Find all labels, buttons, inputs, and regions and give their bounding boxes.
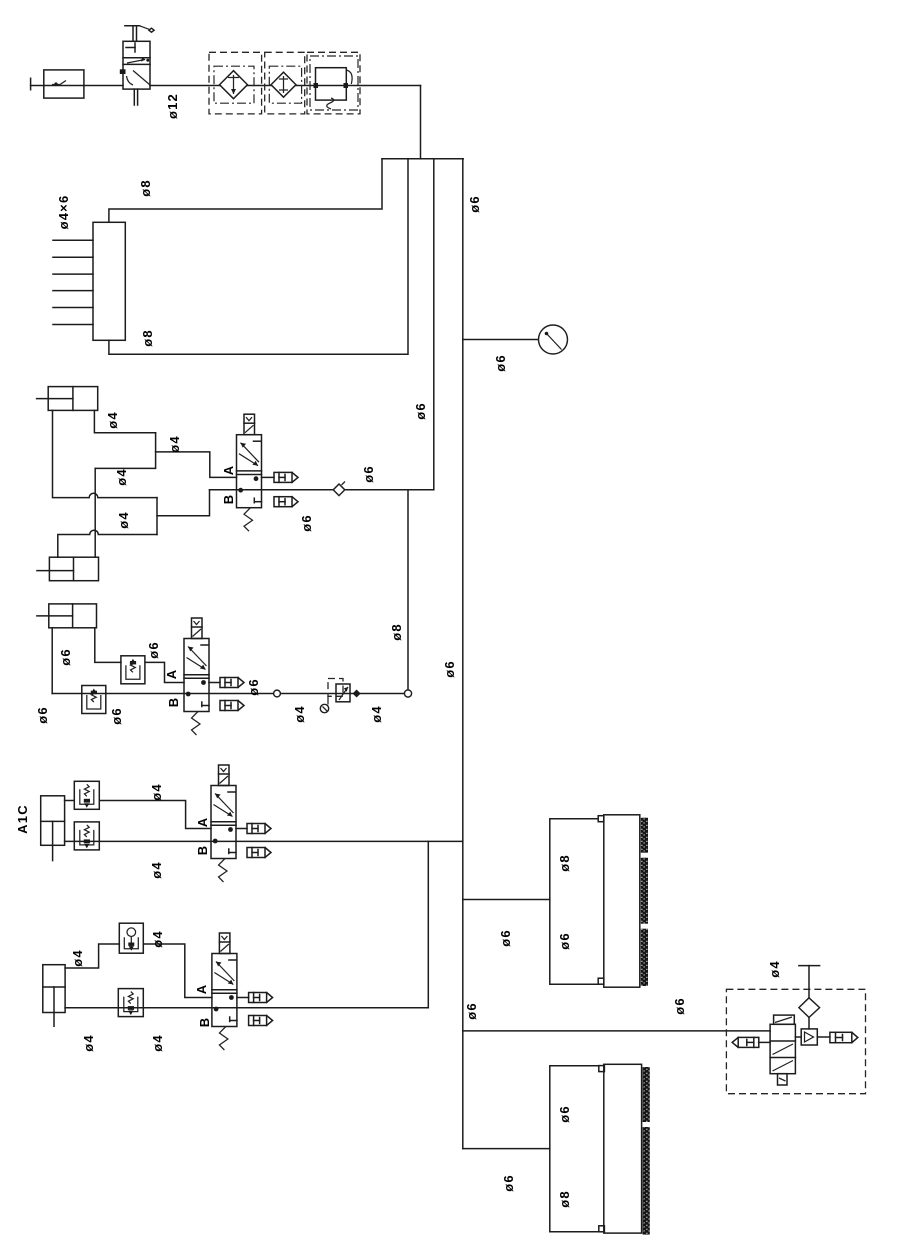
svg-text:ø6: ø6 — [557, 1105, 572, 1123]
silencer V3-B — [247, 848, 271, 858]
wire: C1b rod-side riser — [94, 468, 96, 557]
right silencer of vacuum unit — [817, 1032, 858, 1042]
cylinder C1b — [37, 557, 99, 581]
wire: group4 long line — [65, 1007, 428, 1009]
wire: bus C — [433, 159, 435, 490]
svg-text:A: A — [221, 465, 236, 476]
svg-text:ø4: ø4 — [81, 1034, 96, 1052]
flow control FC2b — [82, 686, 106, 714]
svg-text:ø12: ø12 — [165, 93, 180, 119]
svg-text:ø4: ø4 — [149, 861, 164, 879]
wire: riser to group2 — [407, 490, 409, 694]
svg-text:ø4: ø4 — [150, 1034, 165, 1052]
svg-text:ø6: ø6 — [464, 1002, 479, 1020]
pressure gauge G1 — [539, 325, 568, 354]
vacuum unit dashed enclosure — [726, 989, 865, 1093]
svg-text:ø6: ø6 — [246, 678, 261, 696]
wire: branch to manifold M3 — [463, 1148, 550, 1150]
svg-text:ø4: ø4 — [70, 949, 85, 967]
flow control FC3a — [74, 781, 99, 809]
svg-text:ø8: ø8 — [389, 623, 404, 641]
wire: A-net to valve V1 — [156, 452, 237, 478]
wire: FC3a to valve V3 A-port — [100, 801, 211, 829]
silencer V1-B — [274, 497, 298, 507]
filter diamond of vacuum unit — [799, 966, 820, 1029]
svg-text:B: B — [195, 845, 210, 856]
svg-text:ø6: ø6 — [109, 707, 124, 725]
svg-text:ø4: ø4 — [116, 511, 131, 529]
svg-text:ø6: ø6 — [58, 648, 73, 666]
svg-text:ø4×6: ø4×6 — [56, 195, 71, 230]
svg-text:ø6: ø6 — [35, 706, 50, 724]
wire: connector riser between group3 and group4 — [427, 841, 429, 1007]
hand valve V0 — [120, 26, 154, 105]
svg-text:ø6: ø6 — [498, 929, 513, 947]
wire: C1b head-side port with hop — [58, 530, 157, 557]
wire: C2 rod-side to flow control — [95, 628, 121, 663]
wire: B-net collector — [156, 498, 158, 535]
silencer V4-B — [249, 1016, 273, 1026]
svg-text:A: A — [194, 984, 209, 995]
flow control FC3b — [74, 822, 99, 850]
wire: group2 long line — [52, 693, 408, 695]
svg-text:ø4: ø4 — [369, 705, 384, 723]
check valve CV1 — [333, 482, 345, 496]
silencer V3-A — [236, 824, 271, 834]
silencer V2-A — [209, 678, 244, 688]
wire: inlet line to hand valve — [31, 85, 123, 87]
valve V4 — [212, 933, 237, 1050]
arrow diamond after regulator — [353, 690, 361, 698]
wire: C2 head-side port — [51, 628, 53, 694]
manifold M3 header pipes — [550, 1066, 605, 1232]
svg-text:ø4: ø4 — [292, 705, 307, 723]
wire: C1a rod-side port net — [94, 410, 155, 432]
svg-text:ø6: ø6 — [467, 195, 482, 213]
wire: hand valve to FRL to corner — [150, 85, 421, 87]
svg-text:ø4: ø4 — [150, 930, 165, 948]
vacuum valve V5 — [770, 1015, 795, 1085]
svg-text:A1C: A1C — [15, 804, 30, 834]
regulator R0 — [307, 52, 360, 114]
wire: C4 port1 to FC4a — [65, 944, 119, 968]
svg-text:B: B — [221, 494, 236, 505]
silencer V2-B — [220, 701, 244, 711]
inlet component box — [44, 70, 84, 98]
svg-text:ø6: ø6 — [299, 514, 314, 532]
regulator R2 — [320, 679, 350, 713]
svg-text:ø8: ø8 — [557, 854, 572, 872]
svg-text:ø6: ø6 — [557, 932, 572, 950]
wire: corner down to header — [420, 86, 422, 159]
svg-text:ø6: ø6 — [146, 641, 161, 659]
svg-text:ø4: ø4 — [114, 468, 129, 486]
valve V2 — [184, 618, 209, 735]
svg-text:ø6: ø6 — [442, 660, 457, 678]
wire: header — [382, 158, 463, 160]
svg-text:A: A — [195, 817, 210, 828]
wire: bus B to manifold bottom — [109, 159, 408, 354]
manifold M3 block — [604, 1064, 650, 1234]
cylinder C3 — [41, 796, 65, 861]
junction circle at riser — [404, 690, 411, 697]
inlet end tick — [30, 78, 32, 89]
filter F2 dashed enclosure — [265, 52, 305, 114]
wire: bus A to manifold top — [109, 159, 382, 223]
svg-text:B: B — [166, 697, 181, 708]
silencer V1-A — [262, 472, 299, 482]
wire: branch to manifold M2 — [463, 899, 550, 901]
svg-text:ø6: ø6 — [672, 997, 687, 1015]
svg-text:ø6: ø6 — [493, 354, 508, 372]
wire: C3 port1 to FC3a — [65, 800, 73, 802]
cylinder C1a — [37, 387, 98, 411]
wire: group3 long line — [65, 840, 463, 842]
svg-text:ø8: ø8 — [140, 329, 155, 347]
flow control FC4b — [118, 989, 143, 1017]
svg-text:ø4: ø4 — [767, 960, 782, 978]
valve V3 — [211, 765, 236, 882]
svg-text:ø6: ø6 — [361, 465, 376, 483]
coupling node circle — [274, 690, 281, 697]
svg-text:ø4: ø4 — [149, 783, 164, 801]
svg-text:ø4: ø4 — [167, 435, 182, 453]
valve V1 — [237, 414, 262, 531]
svg-text:B: B — [197, 1017, 212, 1028]
wire: C1a head-side port with hop — [53, 410, 158, 497]
svg-text:ø4: ø4 — [105, 411, 120, 429]
wire: gauge branch — [463, 339, 539, 341]
wire: flow control to valve V2 A-port — [145, 662, 184, 682]
wire: group1 through supply line — [210, 489, 434, 491]
filter F1 dashed enclosure — [209, 52, 262, 114]
cylinder C4 — [43, 965, 65, 1027]
svg-text:A: A — [164, 669, 179, 680]
wire: A-net collector — [95, 433, 155, 469]
svg-text:ø6: ø6 — [501, 1174, 516, 1192]
manifold M1 block — [53, 222, 125, 340]
wire: branch to vacuum unit — [463, 1030, 770, 1032]
svg-text:ø8: ø8 — [138, 179, 153, 197]
flow control FC4a — [119, 923, 143, 953]
vacuum generator nozzle — [795, 1029, 817, 1045]
flow control FC2a — [121, 656, 145, 684]
manifold M2 header pipes — [550, 816, 604, 985]
left silencer of vacuum unit — [732, 1037, 770, 1047]
svg-text:ø8: ø8 — [557, 1190, 572, 1208]
wire: B-net to through line — [157, 490, 210, 516]
svg-text:ø6: ø6 — [413, 402, 428, 420]
manifold M2 block — [604, 815, 648, 987]
cylinder C2 — [37, 604, 97, 628]
wire: bus D main — [462, 159, 464, 1149]
wire: FC4a to valve V4 A-port — [143, 944, 212, 998]
silencer V4-A — [237, 993, 273, 1003]
